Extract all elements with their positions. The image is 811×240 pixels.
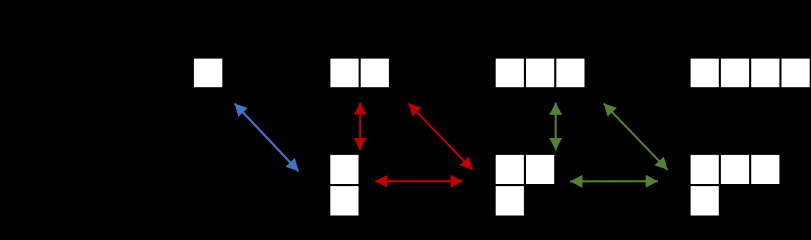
partition (2,1): L-shape	[496, 155, 555, 216]
red diagonal double arrow (2) to (2,1)	[409, 103, 473, 169]
green vertical double arrow (3) to (2,1)	[555, 103, 557, 151]
green horizontal double arrow (2,1) to (3,1)	[570, 180, 658, 182]
partition (3): three squares in a row	[496, 59, 585, 88]
partition (3,1): L-shape of four	[691, 155, 780, 216]
partition (1): single square	[194, 59, 222, 88]
partition (2): two squares in a row	[330, 59, 389, 88]
blue double arrow (1) to (1,1)	[235, 104, 299, 172]
partition (1,1): vertical domino	[330, 155, 358, 216]
red vertical double arrow (2) to (1,1)	[359, 102, 361, 150]
partition (4): four squares in a row	[691, 59, 810, 88]
red horizontal double arrow (1,1) to (2,1)	[375, 180, 463, 182]
green diagonal double arrow (3) to (3,1)	[604, 103, 668, 169]
